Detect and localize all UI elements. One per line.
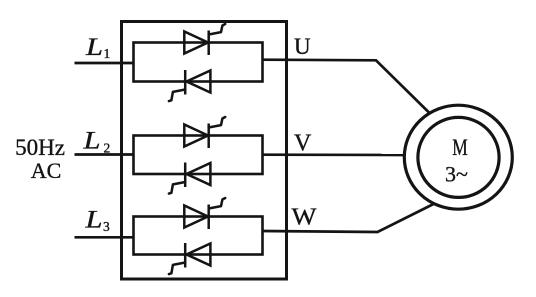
svg-text:L: L	[82, 128, 100, 155]
svg-text:3~: 3~	[445, 162, 468, 187]
wire V output to motor	[262, 153, 406, 156]
soft starter enclosure box	[122, 22, 287, 280]
wire U output to motor	[262, 60, 430, 114]
motor M outer circle	[404, 105, 512, 209]
thyristor V5 (phase 3 forward)	[184, 198, 225, 229]
wire L2 input	[75, 153, 135, 156]
svg-text:50Hz: 50Hz	[15, 135, 65, 160]
svg-text:1: 1	[104, 46, 111, 61]
thyristor V2 (phase 1 reverse)	[169, 70, 211, 101]
svg-text:3: 3	[103, 219, 110, 234]
svg-text:L: L	[85, 34, 103, 61]
thyristor V3 (phase 2 forward)	[184, 117, 225, 148]
wire W output to motor	[262, 204, 434, 232]
svg-text:AC: AC	[31, 158, 62, 183]
thyristor V4 (phase 2 reverse)	[169, 163, 211, 194]
label 50Hz AC source	[15, 135, 65, 183]
node L3 label	[84, 207, 110, 235]
svg-text:L: L	[84, 207, 102, 234]
node L2 label	[82, 128, 110, 156]
node L1 label	[85, 34, 110, 61]
thyristor V6 (phase 3 reverse)	[169, 243, 211, 274]
wire L3 input	[75, 236, 135, 239]
wire L1 input	[75, 62, 135, 65]
phase 2 module rectangle	[134, 136, 263, 175]
motor M inner circle	[418, 117, 499, 197]
thyristor V1 (phase 1 forward)	[184, 24, 225, 55]
phase 1 module rectangle	[134, 43, 263, 82]
svg-text:M: M	[452, 135, 468, 161]
phase 3 module rectangle	[134, 217, 263, 255]
svg-text:V: V	[294, 131, 312, 157]
svg-text:W: W	[292, 205, 317, 231]
svg-text:U: U	[294, 34, 311, 59]
